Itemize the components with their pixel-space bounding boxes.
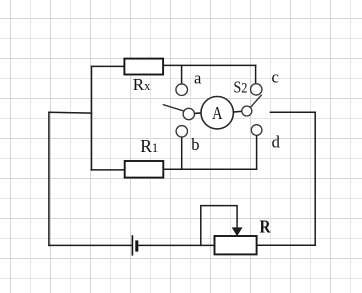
switch lever left (open) <box>163 105 183 111</box>
svg-text:c: c <box>272 68 279 87</box>
wire: drop to terminal c <box>255 65 257 83</box>
ammeter label A <box>212 102 223 123</box>
resistor R1 box <box>125 161 164 178</box>
wire: drop from terminal d <box>256 135 258 169</box>
label R (rheostat) <box>260 216 272 236</box>
svg-text:b: b <box>191 135 199 154</box>
terminal d <box>251 125 262 136</box>
wire: drop to terminal a <box>181 65 183 84</box>
svg-text:R1: R1 <box>140 136 158 156</box>
wire: R1 left lead <box>92 169 126 171</box>
wire: bottom wire to battery <box>49 244 132 246</box>
ammeter lead left <box>194 112 201 114</box>
switch pivot right <box>242 106 252 116</box>
label S2 <box>234 78 248 97</box>
switch lever right (toward c) <box>250 95 261 107</box>
rheostat R box <box>215 236 257 254</box>
battery short plate (negative) <box>135 242 138 250</box>
wire: rheostat wiper loop <box>201 206 237 246</box>
label a <box>194 68 202 87</box>
label b <box>191 135 199 154</box>
ammeter U1 circle <box>201 97 233 129</box>
svg-text:d: d <box>272 133 281 152</box>
wire: Rx left lead from junction <box>92 65 126 67</box>
wire: bottom inner rail from R1 to b and d <box>163 168 256 170</box>
wire: left outer vertical <box>48 112 50 245</box>
wire: bottom wire from battery to rheostat <box>137 244 215 246</box>
label c <box>272 68 279 87</box>
label d <box>272 133 281 152</box>
wire: right outer vertical <box>314 112 316 245</box>
terminal a <box>176 84 188 96</box>
svg-text:A: A <box>212 102 223 123</box>
terminal c <box>251 84 262 95</box>
label Rx <box>133 75 151 94</box>
svg-text:a: a <box>194 68 202 87</box>
svg-text:S2: S2 <box>234 78 248 97</box>
svg-text:R: R <box>260 216 272 236</box>
wire: right middle horizontal <box>270 111 315 113</box>
battery long plate (positive) <box>131 236 133 255</box>
wire: left middle vertical (junction of Rx and R1) <box>91 66 93 170</box>
ammeter lead right <box>233 110 242 113</box>
rheostat wiper arrowhead <box>232 227 243 236</box>
wire: connector from left rail to junction <box>49 111 92 114</box>
wire: drop from terminal b <box>181 137 183 169</box>
terminal b <box>176 126 187 137</box>
resistor Rx box <box>124 59 163 75</box>
wire: bottom right lead to rheostat <box>257 244 316 246</box>
svg-text:Rx: Rx <box>133 75 151 94</box>
switch pivot left <box>183 108 194 119</box>
label R1 <box>140 136 158 156</box>
wire: top rail from Rx to c <box>163 64 256 66</box>
